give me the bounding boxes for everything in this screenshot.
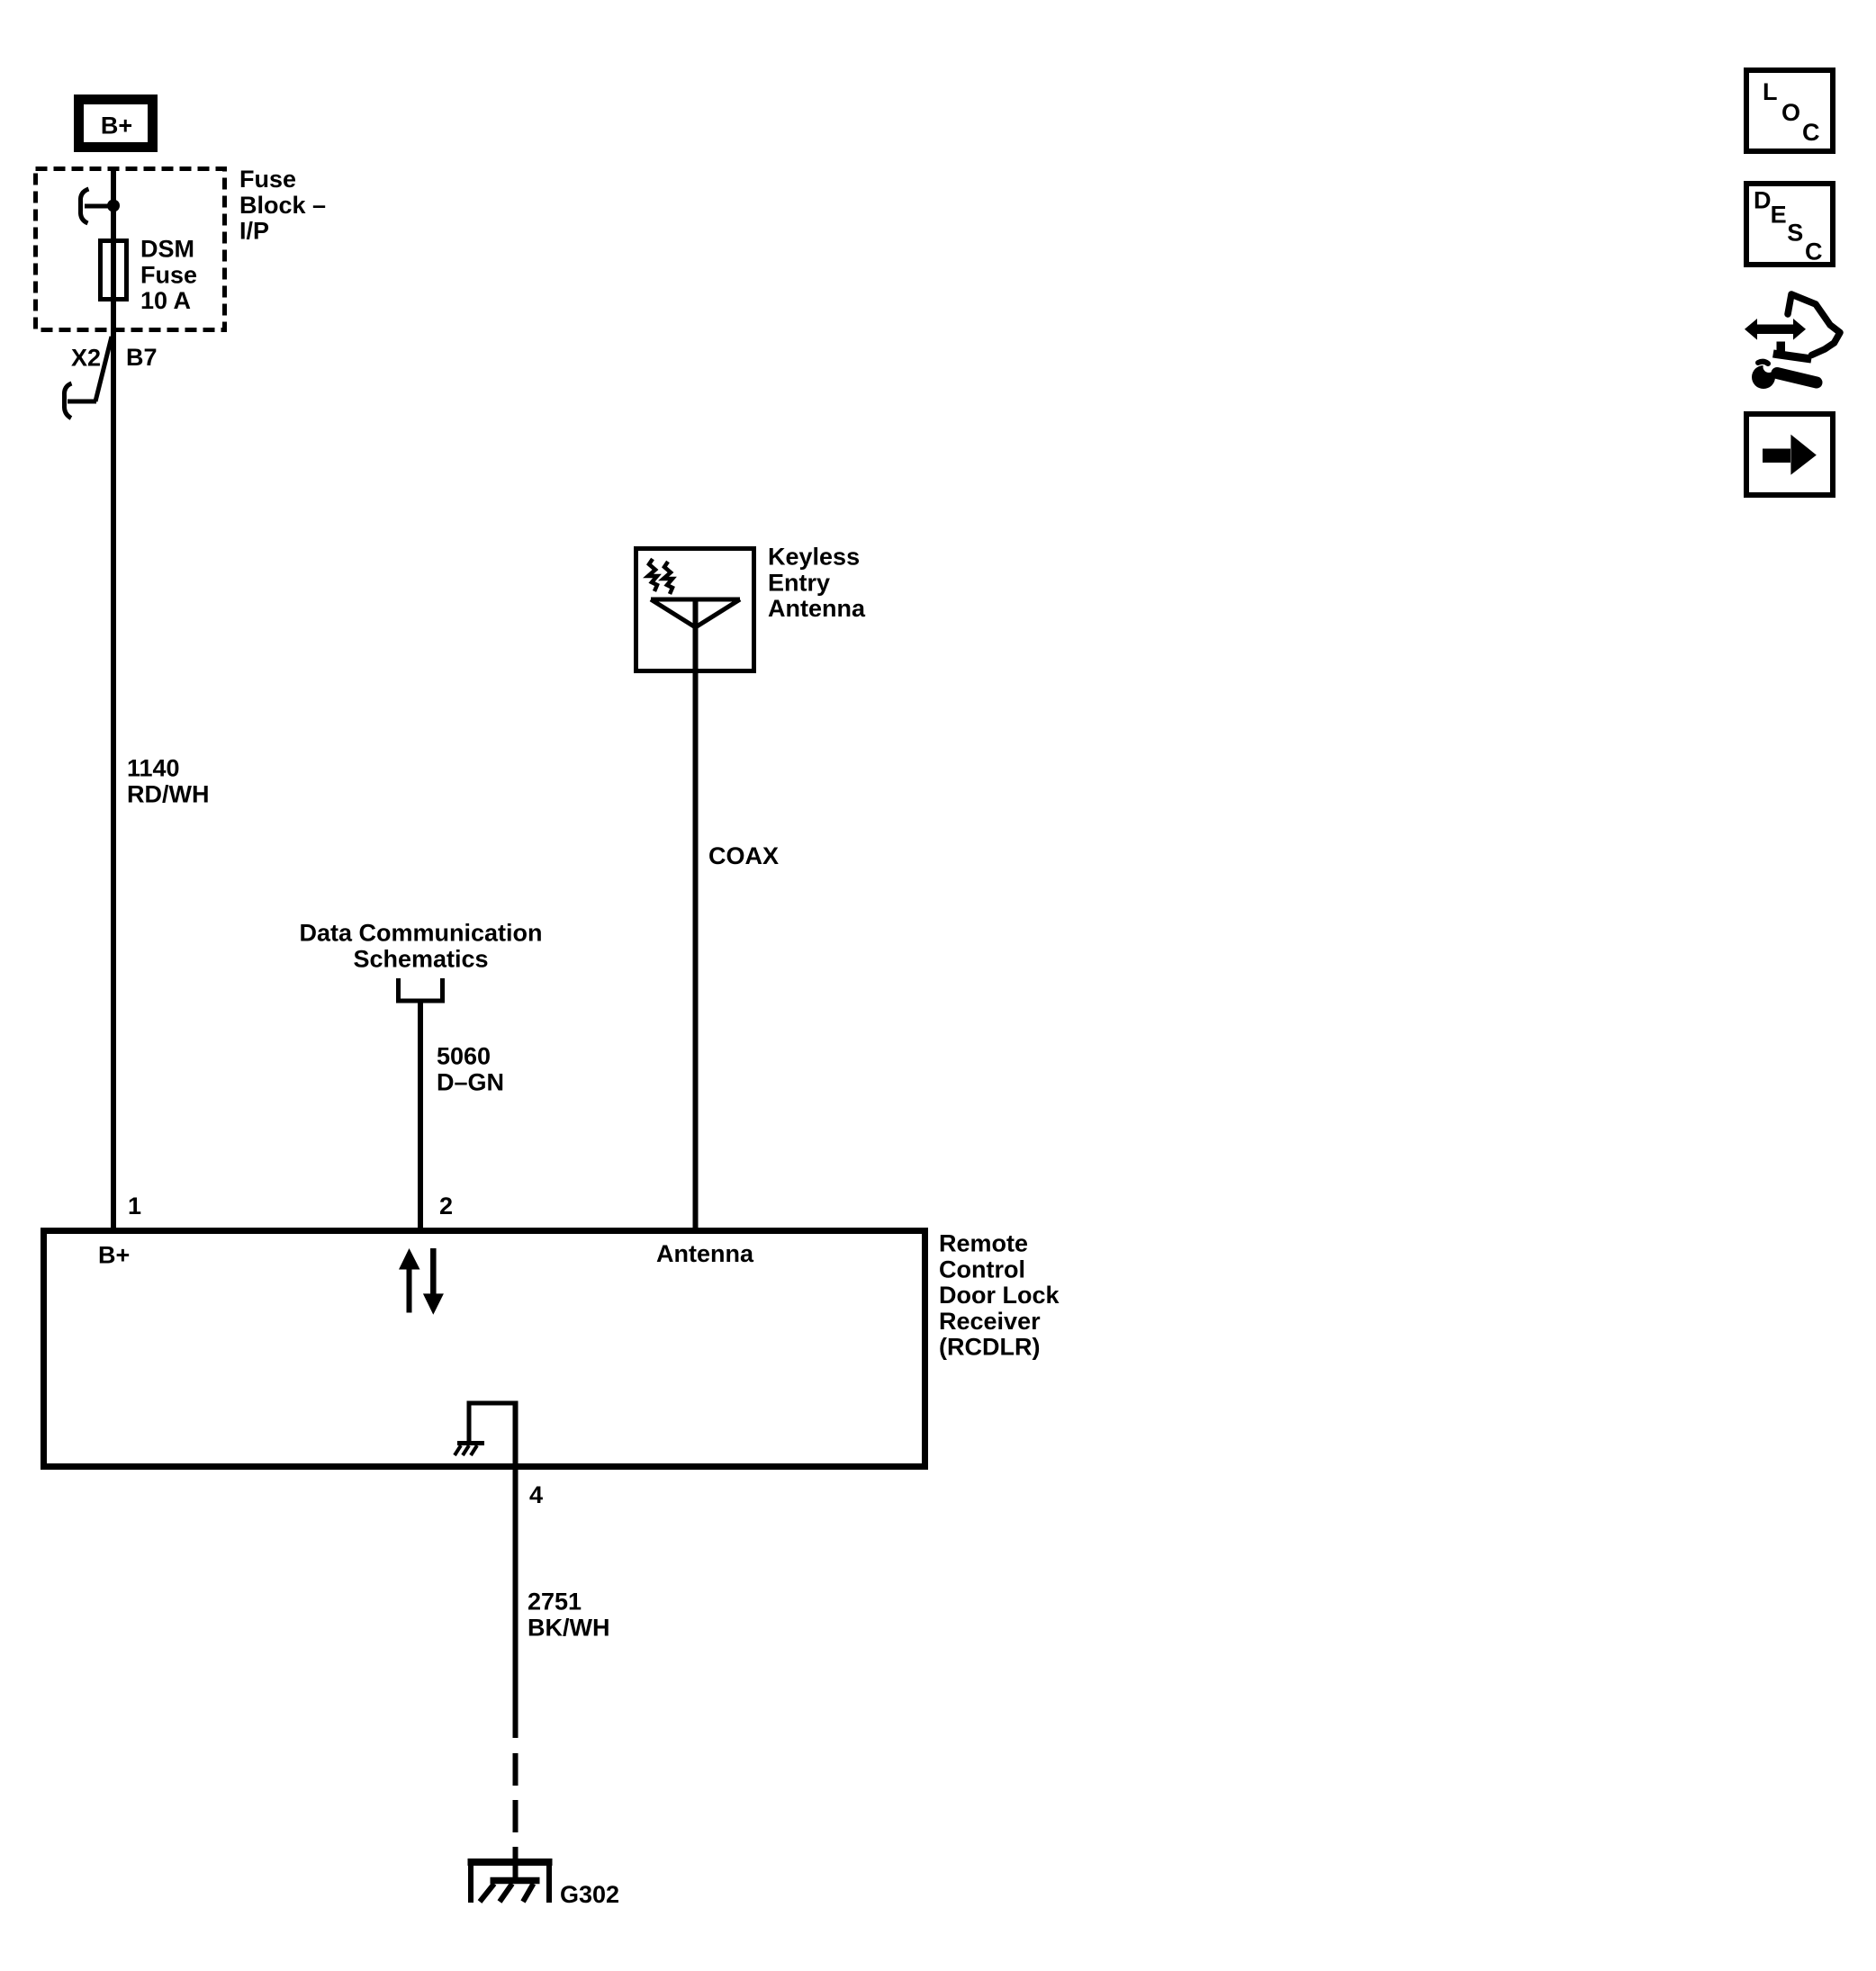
svg-text:4: 4 <box>529 1481 543 1508</box>
svg-text:Remote: Remote <box>939 1230 1028 1257</box>
serial data arrows <box>399 1248 444 1315</box>
svg-text:D: D <box>1754 186 1772 213</box>
node junction dot <box>107 200 120 212</box>
wire B+ feed (circuit 1140) <box>111 168 116 1230</box>
connector X2 pin B7 <box>64 337 157 418</box>
fuse block I/P dashed box <box>36 169 225 330</box>
svg-text:I/P: I/P <box>239 218 269 245</box>
nav icon DESC box <box>1746 184 1833 265</box>
nav icon LOC box <box>1746 70 1833 151</box>
svg-text:L: L <box>1763 78 1778 105</box>
svg-text:1140: 1140 <box>127 755 180 782</box>
label DSM Fuse 10 A <box>140 236 197 315</box>
wire label 2751 BK/WH <box>528 1588 609 1642</box>
svg-text:Receiver: Receiver <box>939 1308 1041 1335</box>
fuse DSM 10A <box>101 241 127 300</box>
svg-text:1: 1 <box>128 1192 141 1219</box>
wire label 1140 RD/WH <box>127 755 209 808</box>
off-page reference bracket <box>399 978 443 1001</box>
wire serial data (circuit 5060) <box>418 1001 423 1230</box>
svg-text:X2: X2 <box>71 345 101 372</box>
svg-text:(RCDLR): (RCDLR) <box>939 1334 1040 1361</box>
svg-text:Schematics: Schematics <box>353 945 488 972</box>
svg-text:Block –: Block – <box>239 192 326 219</box>
svg-text:Entry: Entry <box>768 569 830 596</box>
nav icon arrow box <box>1746 414 1833 495</box>
svg-text:DSM: DSM <box>140 236 194 263</box>
label Data Communication Schematics <box>299 920 542 973</box>
svg-text:B+: B+ <box>101 112 132 139</box>
svg-text:Fuse: Fuse <box>239 166 296 193</box>
svg-text:2751: 2751 <box>528 1588 582 1615</box>
svg-text:G302: G302 <box>560 1881 619 1908</box>
RCDLR module box <box>44 1231 925 1467</box>
wire label 5060 D-GN <box>437 1043 504 1096</box>
svg-text:5060: 5060 <box>437 1043 491 1070</box>
svg-text:B+: B+ <box>98 1242 130 1269</box>
svg-text:C: C <box>1805 238 1823 265</box>
svg-text:Keyless: Keyless <box>768 544 860 571</box>
svg-text:2: 2 <box>439 1192 453 1219</box>
svg-text:Control: Control <box>939 1255 1025 1282</box>
svg-text:RD/WH: RD/WH <box>127 780 209 807</box>
keyless entry antenna box <box>636 549 754 671</box>
antenna symbol <box>651 599 740 627</box>
svg-text:E: E <box>1771 202 1787 229</box>
label Fuse Block - I/P <box>239 166 326 245</box>
power symbol B+ <box>79 100 153 148</box>
svg-text:C: C <box>1802 119 1820 146</box>
svg-text:Data Communication: Data Communication <box>299 920 542 947</box>
svg-text:O: O <box>1781 99 1800 126</box>
label Remote Control Door Lock Receiver (RCDLR) <box>939 1230 1060 1361</box>
svg-text:S: S <box>1787 220 1803 247</box>
svg-text:COAX: COAX <box>708 842 779 869</box>
ground G302 symbol <box>468 1858 553 1903</box>
svg-text:B7: B7 <box>126 344 158 371</box>
svg-text:Door Lock: Door Lock <box>939 1282 1060 1309</box>
nav icon schematic wrench <box>1745 294 1840 389</box>
svg-text:Fuse: Fuse <box>140 261 197 288</box>
wire ground (circuit 2751) <box>513 1467 519 1738</box>
label Keyless Entry Antenna <box>768 544 866 623</box>
svg-text:D–GN: D–GN <box>437 1068 504 1095</box>
svg-text:Antenna: Antenna <box>656 1240 754 1267</box>
svg-text:10 A: 10 A <box>140 287 191 314</box>
RF waves marks <box>648 559 672 594</box>
wire dashed ground segment <box>513 1753 519 1884</box>
internal ground symbol <box>455 1401 516 1471</box>
wire coax antenna lead <box>693 599 699 1230</box>
svg-text:BK/WH: BK/WH <box>528 1614 609 1641</box>
svg-text:Antenna: Antenna <box>768 595 866 622</box>
connector stub (fuse block feed) <box>80 189 113 223</box>
